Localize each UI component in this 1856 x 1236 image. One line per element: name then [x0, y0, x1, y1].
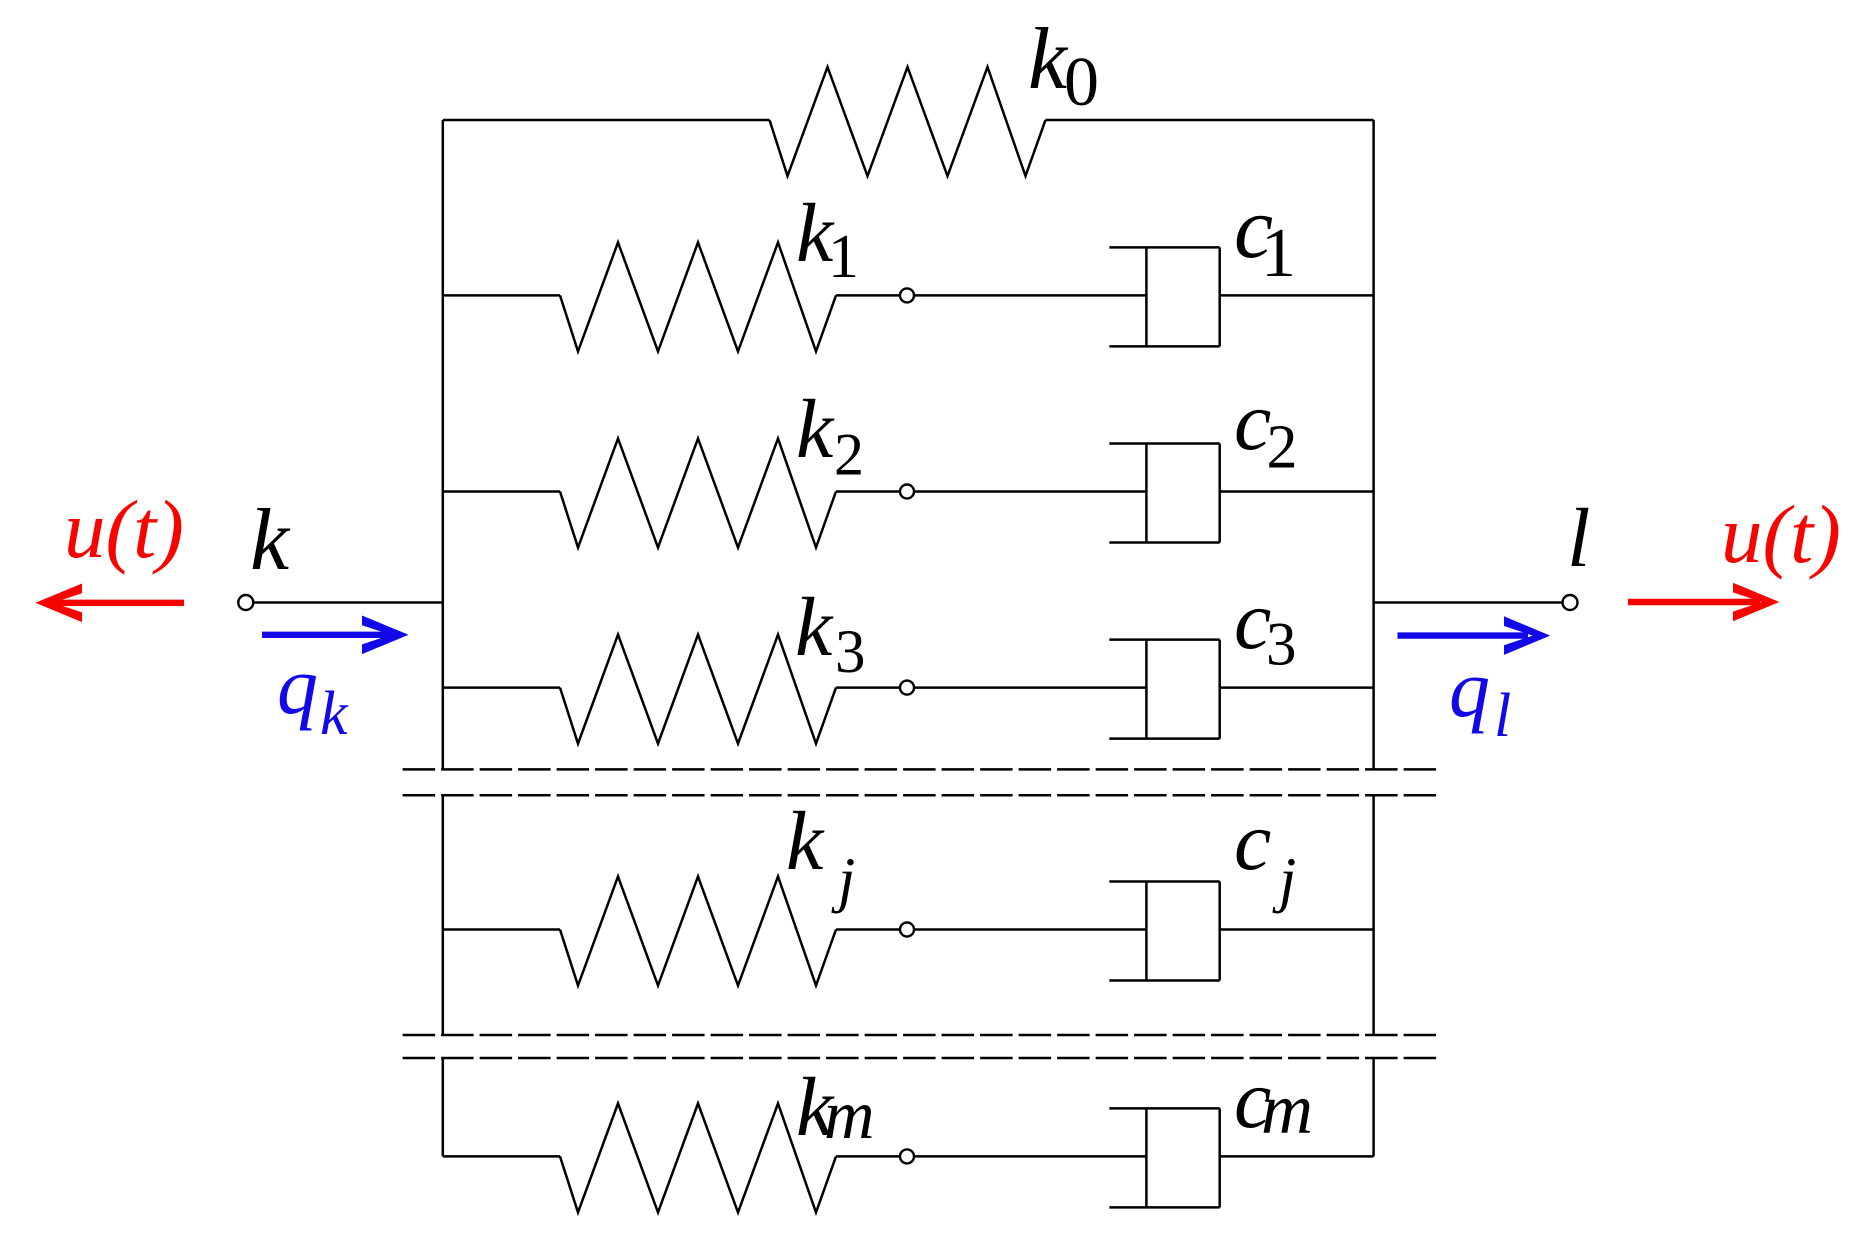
svg-text:k: k — [250, 492, 291, 589]
svg-text:2: 2 — [1267, 413, 1298, 481]
svg-text:c: c — [1234, 795, 1271, 888]
svg-text:2: 2 — [834, 421, 864, 487]
svg-text:0: 0 — [1064, 44, 1099, 121]
svg-text:1: 1 — [828, 223, 859, 291]
svg-text:3: 3 — [1266, 612, 1297, 679]
svg-text:q: q — [1449, 643, 1490, 734]
svg-text:k: k — [796, 383, 835, 476]
svg-text:1: 1 — [1261, 215, 1296, 292]
svg-text:k: k — [786, 795, 825, 888]
svg-text:k: k — [1028, 11, 1069, 108]
svg-text:k: k — [320, 680, 349, 748]
svg-text:m: m — [1261, 1069, 1313, 1149]
svg-text:u(t): u(t) — [1721, 488, 1841, 580]
svg-text:q: q — [277, 640, 318, 731]
svg-text:l: l — [1567, 492, 1590, 585]
svg-text:3: 3 — [835, 619, 866, 686]
svg-text:m: m — [824, 1077, 875, 1154]
svg-text:u(t): u(t) — [64, 483, 184, 575]
svg-text:k: k — [795, 581, 834, 674]
svg-text:l: l — [1494, 682, 1511, 750]
